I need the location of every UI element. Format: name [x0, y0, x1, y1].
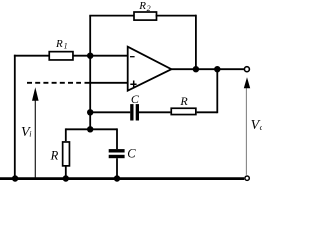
node lower-row junction — [87, 126, 93, 132]
svg-text:2: 2 — [147, 4, 151, 13]
svg-text:R: R — [138, 0, 146, 12]
svg-text:R: R — [179, 94, 188, 108]
node rail C junction — [114, 175, 120, 181]
svg-text:R: R — [55, 38, 63, 50]
capacitor C (series, horizontal) — [130, 104, 133, 120]
wire capacitor to resistor R — [139, 111, 170, 113]
node rail R junction — [63, 175, 69, 181]
node rail left junction — [12, 175, 18, 181]
terminal bottom-right open circle — [245, 176, 249, 180]
wire from R1 through minus node to op-amp inverting input — [73, 55, 129, 57]
Vo arrowhead — [244, 77, 250, 88]
wire bottom rail — [0, 177, 244, 180]
wire feedback row from minus vertical to capacitor C — [90, 111, 130, 113]
op-amp minus pin mark — [130, 56, 135, 58]
svg-text:R: R — [50, 149, 59, 163]
wire left input vertical down to bottom rail — [14, 55, 16, 179]
wire dashed link from input to non-inverting input — [27, 82, 81, 84]
terminal output open circle — [244, 67, 249, 72]
op-amp plus pin mark — [130, 81, 136, 89]
wire R to corner — [197, 111, 218, 113]
wire down to grounded capacitor C — [116, 128, 118, 149]
Vi arrow shaft — [34, 100, 36, 178]
svg-text:i: i — [29, 130, 31, 139]
wire grounded C to bottom rail — [116, 158, 118, 178]
wire down to grounded resistor R — [65, 128, 67, 141]
op-amp U1 — [128, 47, 172, 91]
Vo arrow shaft — [245, 88, 247, 175]
resistor R2 — [134, 12, 157, 20]
svg-text:C: C — [131, 92, 140, 106]
wire right vertical from R2 rail down to output node — [195, 15, 197, 69]
resistor R1 — [49, 52, 73, 60]
wire top-left vertical from minus node up to R2 rail — [89, 16, 91, 56]
wire lower row horizontal — [66, 128, 117, 130]
wire R1 row from left vertical to R1 — [14, 55, 50, 57]
node minus-input junction — [87, 53, 93, 59]
node output junction to R2 — [193, 66, 199, 72]
wire op-amp output to terminal — [171, 68, 244, 70]
wire minus-node vertical down crossing plus wire — [89, 56, 91, 130]
wire grounded R to bottom rail — [65, 166, 67, 178]
wire top rail right of R2 — [156, 15, 196, 17]
Vi arrowhead — [32, 87, 39, 100]
wire vertical from RC up to output node — [216, 69, 218, 113]
node feedback-row junction — [87, 109, 93, 115]
svg-text:C: C — [127, 147, 136, 161]
resistor R grounded (vertical) — [63, 142, 70, 166]
wire top rail left of R2 — [89, 15, 135, 17]
resistor R series — [171, 108, 196, 114]
svg-text:1: 1 — [64, 42, 68, 51]
svg-text:o: o — [260, 122, 262, 132]
capacitor C grounded (vertical) — [109, 149, 125, 152]
node output junction to RC branch — [214, 66, 220, 72]
wire to op-amp non-inverting input — [85, 82, 129, 84]
